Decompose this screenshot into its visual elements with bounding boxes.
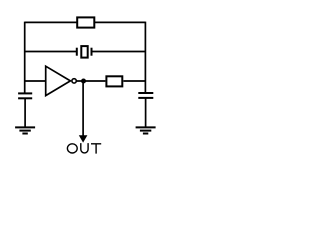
wire output vertical with arrow <box>79 81 88 143</box>
wire right rail vertical <box>144 22 146 93</box>
wire C1 to ground <box>24 98 26 127</box>
resistor R1 <box>77 17 94 27</box>
wire crystal row right <box>92 51 146 53</box>
capacitor C1 <box>18 93 32 98</box>
capacitor C2 <box>138 93 153 98</box>
ground left <box>15 127 35 133</box>
wire top rail horizontal <box>25 21 146 23</box>
resistor R2 <box>106 76 122 86</box>
ground right <box>136 127 156 133</box>
inverter U1 <box>46 66 77 95</box>
wire inverter output to resistor <box>76 80 105 82</box>
wire left rail vertical <box>24 22 26 94</box>
node output junction dot <box>81 79 86 84</box>
node OUT label <box>67 143 101 154</box>
wire resistor R2 to right rail <box>123 80 145 82</box>
wire C2 to ground <box>145 98 147 128</box>
wire inverter input <box>25 80 46 82</box>
crystal Y1 <box>77 46 92 58</box>
wire crystal row left <box>25 51 77 53</box>
